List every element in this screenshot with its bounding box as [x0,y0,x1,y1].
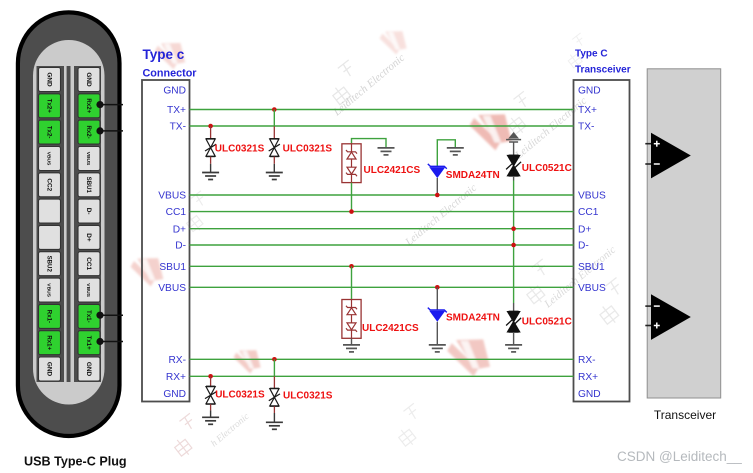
wire SBU1 bus [190,265,574,267]
svg-text:ULC2421CS: ULC2421CS [362,323,419,334]
svg-text:D-: D- [175,241,186,252]
plug pin chip right Tx1- [78,304,100,328]
svg-text:SMDA24TN: SMDA24TN [446,313,500,324]
svg-text:Rx2-: Rx2- [85,125,92,138]
ground for D8 [505,345,522,352]
wire U1 to CC1 [351,183,353,212]
power/antenna up-ground symbol above D7 [506,133,521,155]
svg-text:ULC0321S: ULC0321S [283,144,333,155]
svg-text:ULC0521C: ULC0521C [522,163,572,174]
plug pin chip left blank [39,225,61,249]
connector pin label VBUS [158,283,186,294]
connector pin label TX- [170,122,186,133]
svg-text:Rx2+: Rx2+ [85,98,92,113]
label ULC0321S (D3) [215,390,265,401]
connector pin label TX+ [167,105,186,116]
svg-text:Leiditech Electronic: Leiditech Electronic [402,182,479,249]
title Transceiver [575,65,631,76]
ground for D2 [266,173,283,180]
connector pin label VBUS [158,191,186,202]
svg-text:SMDA24TN: SMDA24TN [446,170,500,181]
junction node RX- / D4 [272,357,277,362]
label ULC0521C (D8) [522,316,572,327]
connector pin label RX+ [166,372,186,383]
ground for D1 [202,173,219,180]
svg-text:CC1: CC1 [85,257,92,270]
svg-text:VBUS: VBUS [158,283,186,294]
transceiver pin label TX+ [578,105,597,116]
svg-text:Connector: Connector [143,68,198,80]
wire D7 down through D+ D- [513,176,515,303]
wire into D8 [513,303,515,311]
wire CC1 bus [190,211,574,213]
plug pin chip left Tx2- [39,120,61,144]
connector pin label RX- [168,355,186,366]
svg-text:VBUS: VBUS [45,152,51,166]
plug pin chip right Rx2- [78,120,100,144]
svg-text:Tx2+: Tx2+ [45,99,52,114]
label ULC2421CS (U1) [364,165,421,176]
junction node VBUS / D5 [435,193,440,198]
wire TX+ bus [190,109,574,111]
wire VBUS bus [190,194,574,196]
svg-text:CC1: CC1 [578,207,599,218]
plug pin chip right VBUS [78,278,100,302]
op-amp A2 input stubs [645,306,652,325]
svg-text:Tx2-: Tx2- [45,126,52,139]
connector pin label CC1 [166,207,187,218]
label ULC0321S (D1) [215,144,265,155]
wire ULC2421CS#1 top bend to ground [352,139,387,148]
svg-text:VBUS: VBUS [578,191,606,202]
plug pin chip left GND [39,357,61,381]
label ULC0321S (D2) [283,144,333,155]
title Type C [575,49,608,60]
junction node VBUS / D6 [435,285,440,290]
svg-text:Tx1-: Tx1- [85,310,92,323]
transceiver pin label CC1 [578,207,599,218]
ground for D4 [266,422,283,429]
plug pin chip right GND [78,357,100,381]
TVS diode D7 ULC0521C [506,155,521,176]
svg-text:VBUS: VBUS [85,283,91,297]
svg-text:RX+: RX+ [578,372,598,383]
svg-text:GND: GND [578,86,601,97]
wire SMDA#1 top bend to ground [437,140,455,166]
label SMDA24TN (D5) [446,170,500,181]
plug pin chip right SBU1 [78,173,100,197]
transceiver pin label GND [578,86,601,97]
wire RX+ bus [190,375,574,377]
svg-text:GND: GND [45,362,52,377]
connector pin label D+ [173,224,186,235]
connector pin label GND [163,86,186,97]
plug pin chip right VBUS [78,147,100,171]
svg-text:SBU2: SBU2 [45,256,52,273]
svg-text:SBU1: SBU1 [578,262,605,273]
wire D- bus [190,244,574,246]
svg-text:VBUS: VBUS [85,152,91,166]
junction node TX- / D1 [208,124,213,129]
label ULC0321S (D4) [283,391,333,402]
TVS diode D3 ULC0321S [205,386,216,404]
connector pin label GND [163,389,186,400]
junction node SBU1 / U2 [349,264,354,269]
wire D6 to ground [436,322,438,345]
svg-text:ULC2421CS: ULC2421CS [364,165,421,176]
svg-text:Rx1-: Rx1- [45,310,52,323]
transceiver pin label VBUS [578,283,606,294]
svg-text:USB Type-C Plug: USB Type-C Plug [24,455,127,469]
svg-text:Transceiver: Transceiver [575,65,631,76]
plug pin chip left blank [39,199,61,223]
svg-text:GND: GND [85,362,92,377]
wire stub D3 to ground [210,404,212,417]
plug pin chip left CC2 [39,173,61,197]
svg-text:Rx1+: Rx1+ [45,335,52,350]
plug pin chip left VBUS [39,147,61,171]
transceiver IC block [647,69,721,398]
svg-text:Type C: Type C [575,49,608,60]
wire RX- down to D4 [273,359,275,388]
wire stub D1 [210,126,212,139]
wire D+ bus [190,228,574,230]
plug pin chip left GND [39,68,61,92]
svg-text:TX+: TX+ [578,105,597,116]
TVS diode D8 ULC0521C [506,311,521,332]
svg-text:GND: GND [85,72,92,87]
label SMDA24TN (D6) [446,313,500,324]
plug pin wire stub Rx2- [96,127,123,134]
plug pin chip left SBU2 [39,252,61,276]
junction node D+ [511,226,516,231]
plug pin chip left Tx2+ [39,94,61,118]
wire VBUS down to D6 [436,287,438,310]
svg-text:D+: D+ [173,224,186,235]
ground for D6 [429,345,446,352]
wire stub D3 [210,376,212,386]
diode array U2 ULC2421CS [342,300,361,339]
transceiver pin label TX- [578,122,594,133]
svg-text:GND: GND [163,389,186,400]
svg-text:GND: GND [163,86,186,97]
plug pin chip left Rx1+ [39,331,61,355]
svg-text:CC1: CC1 [166,207,187,218]
USB Type-C plug body [18,12,120,436]
svg-text:TX-: TX- [578,122,594,133]
svg-text:VBUS: VBUS [578,283,606,294]
svg-text:RX-: RX- [578,355,596,366]
svg-text:GND: GND [45,72,52,87]
watermark CSDN [617,449,742,464]
ground for ULC2421CS#1 [378,148,395,155]
wire D8 to ground [513,332,515,345]
wire SBU1 down to U2 [351,266,353,299]
TVS diode D4 ULC0321S [269,388,280,406]
svg-text:ULC0521C: ULC0521C [522,316,572,327]
TVS diode D2 ULC0321S [269,139,280,157]
wire stub D2 to ground [273,157,275,173]
label ULC0521C (D7) [522,163,572,174]
ground for D3 [202,417,219,424]
title Connector [143,68,198,80]
svg-text:Tx1+: Tx1+ [85,336,92,351]
svg-text:RX-: RX- [168,355,186,366]
label ULC2421CS (U2) [362,323,419,334]
connector box (Type c Connector) [142,80,190,402]
ground for U2 [343,345,360,352]
svg-text:SBU1: SBU1 [85,177,92,194]
junction node TX+ / D2 [272,107,277,112]
svg-text:VBUS: VBUS [158,191,186,202]
plug pin chip right D- [78,199,100,223]
svg-text:ULC0321S: ULC0321S [215,390,265,401]
svg-text:ULC0321S: ULC0321S [215,144,265,155]
svg-text:Type c: Type c [143,47,185,62]
transceiver pin label D+ [578,224,591,235]
plug pin chip right Tx1+ [78,331,100,355]
svg-text:RX+: RX+ [166,372,186,383]
svg-text:CSDN @Leiditech__: CSDN @Leiditech__ [617,449,742,464]
plug pin chip right GND [78,68,100,92]
plug pin chip left VBUS [39,278,61,302]
svg-text:VBUS: VBUS [45,283,51,297]
svg-text:D+: D+ [85,233,92,242]
connector pin label SBU1 [159,262,186,273]
plug pin wire stub Tx1+ [96,338,123,345]
transceiver pin label VBUS [578,191,606,202]
plug pin chip left Rx1- [39,304,61,328]
plug pin chip right D+ [78,225,100,249]
svg-text:D-: D- [578,241,589,252]
ground for SMDA#1 [447,148,464,155]
TVS diode D5 SMDA24TN [428,164,447,178]
transceiver pin label D- [578,241,589,252]
TVS diode D1 ULC0321S [205,139,216,157]
connector pin label D- [175,241,186,252]
junction node RX+ / D3 [208,374,213,379]
transceiver pin box (Type C Transceiver) [574,80,630,402]
junction node CC1 / U1 [349,209,354,214]
svg-text:SBU1: SBU1 [159,262,186,273]
plug pin chip right Rx2+ [78,94,100,118]
wire TX+ down to D2 [273,110,275,139]
wire U2 to ground [351,338,353,344]
op-amp A1 [651,133,691,179]
op-amp A2 [651,294,691,340]
wire RX- bus [190,358,574,360]
svg-text:TX-: TX- [170,122,186,133]
svg-text:TX+: TX+ [167,105,186,116]
plug pin chip right CC1 [78,252,100,276]
caption USB Type-C Plug [24,455,127,469]
transceiver pin label RX- [578,355,596,366]
junction node D- [511,243,516,248]
title Type c [143,47,185,62]
svg-text:D+: D+ [578,224,591,235]
wire stub D1 to ground [210,157,212,173]
transceiver pin label SBU1 [578,262,605,273]
svg-text:CC2: CC2 [45,178,52,191]
decorative watermarks [25,24,638,458]
wire stub D4 to ground [273,406,275,422]
transceiver pin label RX+ [578,372,598,383]
wire VBUS bus [190,286,574,288]
svg-text:Transceiver: Transceiver [654,408,716,422]
svg-text:ULC0321S: ULC0321S [283,391,333,402]
TVS diode D6 SMDA24TN [428,308,447,322]
transceiver pin label GND [578,389,601,400]
plug pin A6 wire stub Rx2+ [96,101,123,108]
plug pin wire stub Tx1- [96,312,123,319]
svg-text:D-: D- [85,208,92,215]
svg-text:GND: GND [578,389,601,400]
caption Transceiver [654,408,716,422]
wire TX- bus [190,125,574,127]
wire D5 to VBUS [436,178,438,195]
diode array U1 ULC2421CS [342,144,361,183]
svg-text:Leiditech Electronic: Leiditech Electronic [541,244,618,311]
op-amp A1 input stubs [645,144,652,164]
